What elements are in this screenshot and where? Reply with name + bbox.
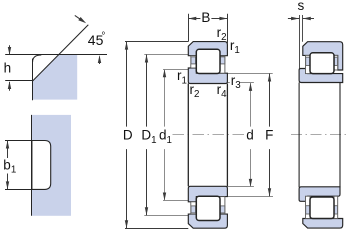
B extension line left: [188, 14, 190, 42]
b1 detail ring section (blue): [32, 115, 71, 216]
svg-text:D1: D1: [141, 128, 156, 146]
svg-text:B: B: [201, 10, 210, 25]
svg-text:r4: r4: [217, 82, 228, 100]
s dimension line with arrows: [288, 18, 299, 20]
extension line F top: [227, 73, 272, 75]
svg-text:r1: r1: [177, 68, 187, 86]
outer ring top section: [188, 42, 227, 56]
left side face line: [187, 84, 189, 187]
45-degree reference up arrow: [99, 57, 101, 65]
h lower surface line: [5, 80, 32, 82]
right view cage bars top section: [306, 57, 310, 65]
right view outer ring top section: [303, 42, 343, 70]
D dimension line: [126, 42, 128, 127]
centerline of middle bearing: [173, 134, 248, 136]
B dimension line: [188, 18, 200, 20]
chamfer detail rounded corner arc: [33, 55, 42, 62]
D1 dimension line: [146, 55, 148, 127]
svg-text:D: D: [123, 128, 133, 143]
right view roller pocket bottom section: [310, 197, 334, 219]
extension line D top: [125, 41, 188, 43]
extension line d top: [227, 82, 254, 84]
cage bars top section: [191, 57, 196, 64]
inner ring top section: [188, 68, 227, 84]
extension line D1 bottom: [144, 215, 188, 217]
roller slots bottom section: [191, 202, 197, 214]
B extension line right: [227, 14, 229, 44]
svg-text:d: d: [246, 128, 254, 143]
extension line d1 top: [163, 69, 188, 71]
b1 dimension line with arrows: [7, 141, 9, 159]
right view inner ring top section: [299, 69, 343, 83]
right view centerline: [291, 134, 346, 136]
svg-text:r2: r2: [190, 82, 200, 100]
right view outer ring bottom section: [303, 219, 343, 229]
extension line D1 top: [144, 54, 188, 56]
right view inner ring bottom section: [299, 187, 340, 202]
45-degree leader arrow: [75, 15, 82, 20]
svg-text:s: s: [298, 0, 305, 13]
d dimension line: [250, 83, 252, 127]
right side face line: [226, 84, 228, 187]
outer ring bottom section: [188, 214, 227, 228]
inner ring bottom section: [188, 186, 227, 202]
right view inner ring right face line: [339, 83, 341, 188]
chamfer detail ring top surface line: [5, 54, 107, 56]
right view inner ring left face line: [299, 15, 301, 69]
b1 detail groove (white notch): [32, 141, 51, 190]
right view cage bars bottom section: [306, 206, 310, 214]
b1 extension line bottom: [5, 189, 32, 191]
roller with pocket bottom section: [196, 196, 220, 220]
extension line D bottom: [125, 228, 188, 230]
chamfer detail ring corner (blue section): [33, 55, 78, 100]
right view slots bottom section: [306, 196, 311, 218]
svg-text:r3: r3: [231, 73, 242, 91]
chamfer 45-degree line: [33, 25, 89, 81]
svg-text:F: F: [265, 128, 273, 143]
roller with pocket top section: [196, 49, 220, 73]
right view slots top section: [306, 55, 311, 73]
h dimension bottom arrow: [9, 82, 11, 91]
extension line d1 bottom: [163, 200, 188, 202]
svg-text:d1: d1: [159, 128, 172, 146]
svg-text:b1: b1: [3, 158, 16, 176]
b1 detail ring bore line: [31, 115, 33, 216]
roller slots top section: [191, 56, 197, 68]
chamfer detail ring face line: [32, 59, 34, 101]
svg-text:r2: r2: [217, 25, 227, 43]
cage bars bottom section: [191, 206, 196, 213]
b1 extension line top: [5, 140, 32, 142]
svg-text:h: h: [4, 60, 12, 75]
s extension line outer: [302, 15, 304, 42]
extension line F bottom: [227, 196, 273, 198]
F dimension line: [269, 74, 271, 127]
d1 dimension line: [164, 69, 166, 126]
svg-text:r1: r1: [230, 38, 240, 56]
svg-text:°: °: [101, 31, 105, 42]
right view roller pocket top section: [310, 53, 334, 74]
label r3 right: [230, 76, 240, 86]
extension line d bottom: [227, 186, 254, 188]
h dimension top arrow: [9, 45, 11, 54]
